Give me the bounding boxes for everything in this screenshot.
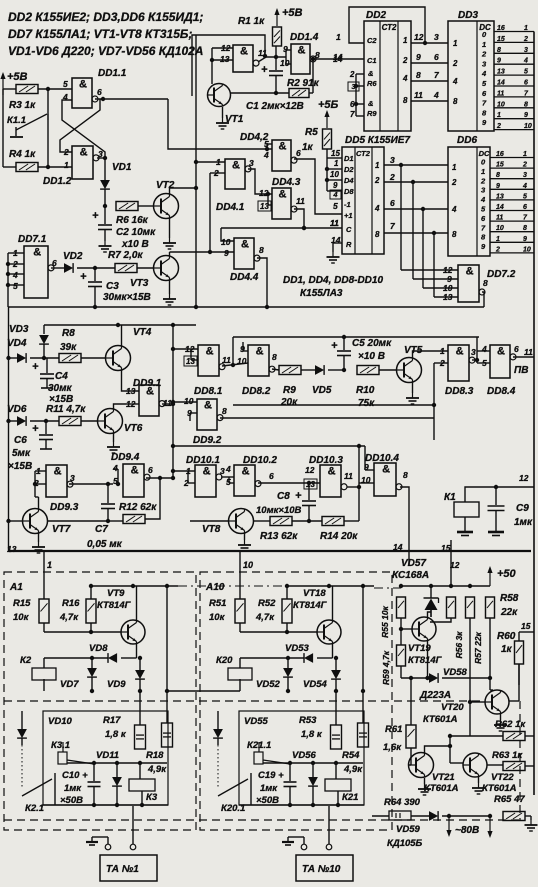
terminal: [130, 844, 136, 850]
svg-text:+5В: +5В: [7, 71, 28, 83]
bus mid vertical: [172, 325, 174, 477]
svg-text:VD6: VD6: [7, 404, 27, 415]
svg-text:2: 2: [451, 178, 457, 187]
wire: [328, 806, 330, 844]
svg-text:6: 6: [269, 471, 274, 481]
wire: [313, 58, 364, 60]
svg-text:11: 11: [524, 347, 533, 357]
svg-text:1к: 1к: [501, 644, 513, 655]
svg-text:VD10: VD10: [48, 716, 72, 727]
svg-text:+5Б: +5Б: [318, 99, 339, 111]
svg-text:А1: А1: [9, 582, 23, 593]
svg-text:VT9: VT9: [107, 588, 125, 599]
diode VD2: [64, 263, 73, 273]
ground: [238, 540, 251, 551]
wire: [410, 678, 412, 725]
svg-text:К20.1: К20.1: [221, 803, 245, 814]
wire emitter: [478, 777, 480, 783]
wire left bus: [8, 307, 10, 551]
wire: [379, 369, 397, 371]
ladder wire: [494, 96, 534, 98]
svg-text:3: 3: [482, 59, 487, 68]
section dashed line top: [4, 700, 484, 702]
svg-text:DD1.1: DD1.1: [98, 68, 127, 79]
gate DD9.3: [46, 465, 73, 497]
svg-text:5: 5: [63, 79, 68, 89]
wire: [138, 205, 154, 207]
svg-text:&: &: [256, 346, 264, 358]
svg-text:4: 4: [374, 204, 380, 213]
svg-text:~80В: ~80В: [455, 825, 479, 836]
wire: [309, 92, 313, 94]
svg-text:8: 8: [483, 278, 488, 288]
diode VD10 left: [21, 711, 23, 729]
IC DD5: [342, 147, 384, 254]
svg-text:1: 1: [64, 160, 69, 170]
svg-text:14: 14: [333, 54, 343, 64]
svg-text:9: 9: [333, 181, 338, 190]
svg-text:13: 13: [220, 54, 230, 64]
svg-text:R1 1к: R1 1к: [238, 16, 265, 27]
gate DD9.4: [123, 464, 150, 497]
svg-text:&: &: [54, 466, 62, 478]
svg-text:10: 10: [330, 170, 339, 179]
terminal: [105, 844, 111, 850]
wire: [411, 62, 448, 64]
wire collector: [487, 764, 503, 766]
svg-text:4: 4: [481, 344, 487, 354]
svg-text:1: 1: [334, 159, 339, 168]
resistor R53: [331, 725, 342, 749]
svg-text:D4: D4: [344, 176, 354, 185]
diode VD8: [108, 653, 117, 663]
svg-text:R4 1к: R4 1к: [9, 149, 36, 160]
ladder wire: [494, 85, 534, 87]
transistor VT5: [397, 358, 422, 383]
wire C-line: [221, 227, 342, 229]
svg-text:DD7.2: DD7.2: [487, 269, 516, 280]
pin 4 boxed: [330, 190, 341, 199]
svg-text:13: 13: [497, 69, 505, 76]
svg-text:9: 9: [524, 112, 528, 119]
ladder wire: [494, 63, 534, 65]
wire: [434, 362, 448, 364]
border bottom: [9, 550, 531, 552]
svg-text:12: 12: [519, 473, 529, 483]
svg-text:1,6к: 1,6к: [383, 742, 402, 753]
ladder wire: [490, 157, 534, 159]
ground: [32, 542, 45, 553]
power +50 arrow: [487, 566, 492, 586]
wire: [196, 161, 225, 163]
svg-text:75к: 75к: [358, 398, 375, 409]
svg-text:10: 10: [221, 237, 231, 247]
svg-text:×15В: ×15В: [8, 461, 32, 472]
svg-text:R59 4,7к: R59 4,7к: [381, 650, 391, 685]
wire: [95, 98, 168, 100]
svg-text:&: &: [497, 346, 505, 358]
wire DD4.1 out: [248, 169, 272, 194]
diode VD58: [429, 673, 438, 683]
diode VD6: [9, 420, 18, 422]
svg-text:VT21: VT21: [432, 772, 455, 783]
resistor R63: [503, 762, 525, 771]
wire: [513, 356, 534, 358]
svg-text:1: 1: [524, 25, 528, 32]
svg-text:VD58: VD58: [443, 667, 467, 678]
wire: [38, 88, 72, 90]
svg-text:8: 8: [523, 225, 527, 232]
svg-text:11: 11: [496, 215, 503, 222]
svg-text:10: 10: [497, 101, 505, 108]
relay К2 coil: [32, 668, 56, 680]
svg-text:0: 0: [481, 158, 486, 167]
wire: [410, 748, 412, 765]
svg-text:R51: R51: [209, 598, 226, 609]
svg-text:4: 4: [480, 195, 486, 204]
svg-text:VD1-VD6 Д220; VD7-VD56 КД102А: VD1-VD6 Д220; VD7-VD56 КД102А: [8, 44, 203, 58]
svg-text:10: 10: [280, 58, 290, 68]
svg-text:1: 1: [482, 40, 486, 49]
resistor R6: [116, 202, 138, 211]
wire: [38, 166, 72, 168]
wire DD9.3 out: [69, 483, 113, 485]
wire DD9.4 out: [146, 477, 173, 479]
diode VD7: [91, 658, 93, 668]
wire: [384, 164, 448, 166]
svg-text:13: 13: [306, 480, 315, 489]
svg-text:-1: -1: [344, 200, 351, 209]
svg-text:6: 6: [390, 198, 395, 208]
capacitor C7: [107, 484, 109, 503]
svg-text:DD8.1: DD8.1: [194, 386, 223, 397]
inner solid box: [43, 711, 168, 805]
wire: [268, 204, 272, 206]
ladder wire: [490, 167, 534, 169]
svg-text:К155ЛА3: К155ЛА3: [300, 288, 343, 299]
wire: [518, 632, 520, 641]
svg-text:5мк: 5мк: [12, 448, 31, 459]
svg-text:5: 5: [524, 69, 528, 76]
R5 input bus: [326, 158, 328, 191]
wire: [145, 478, 160, 519]
resistor R51: [235, 599, 245, 623]
ladder wire: [494, 52, 534, 54]
svg-text:1: 1: [452, 163, 457, 172]
gate DD1.1: [72, 78, 98, 108]
wire R62 row: [450, 735, 503, 737]
svg-text:DD6: DD6: [457, 135, 477, 146]
svg-text:6: 6: [148, 465, 153, 475]
svg-text:R53: R53: [299, 715, 317, 726]
svg-text:+1: +1: [344, 211, 353, 220]
svg-text:2: 2: [496, 123, 501, 130]
svg-text:VD54: VD54: [303, 679, 327, 690]
resistor R55: [397, 597, 406, 618]
wire bottom: [43, 679, 45, 691]
svg-text:7: 7: [482, 99, 487, 108]
svg-text:R14 20к: R14 20к: [320, 531, 358, 542]
wire: [464, 517, 466, 531]
svg-text:4: 4: [522, 183, 527, 190]
svg-text:9: 9: [496, 183, 500, 190]
svg-text:&: &: [241, 239, 249, 251]
svg-text:7: 7: [390, 221, 396, 231]
wire: [191, 359, 198, 361]
svg-text:4,9к: 4,9к: [343, 764, 363, 775]
wire: [166, 586, 168, 723]
resistor R57: [466, 597, 475, 618]
ground: [327, 252, 340, 263]
svg-text:13: 13: [443, 292, 453, 302]
svg-text:VD53: VD53: [285, 643, 309, 654]
svg-text:&: &: [33, 247, 41, 259]
relay K1: [454, 502, 479, 517]
svg-text:8: 8: [222, 406, 227, 416]
wire y446: [173, 445, 365, 447]
wire: [422, 209, 424, 288]
resistor R60: [515, 641, 524, 664]
svg-text:&: &: [382, 464, 390, 476]
svg-text:C5 20мк: C5 20мк: [352, 338, 392, 349]
svg-text:0,05 мк: 0,05 мк: [87, 539, 123, 550]
svg-text:VT6: VT6: [124, 423, 143, 434]
wire VT8 emitter: [244, 533, 246, 540]
wire left bus: [7, 253, 9, 307]
transistor VT21: [409, 753, 434, 778]
svg-text:DD8.3: DD8.3: [445, 386, 474, 397]
wire bottom inner: [239, 804, 364, 806]
wire: [2, 89, 4, 167]
inner solid box: [239, 711, 364, 805]
ladder wire: [494, 107, 534, 109]
svg-text:R57 22к: R57 22к: [473, 631, 483, 663]
wire: [384, 208, 448, 210]
gate DD8.4: [490, 345, 516, 378]
wire DD8.2 out: [272, 369, 279, 370]
svg-text:C3: C3: [106, 281, 119, 292]
ladder wire: [490, 210, 534, 212]
svg-text:7: 7: [350, 110, 355, 119]
svg-text:4: 4: [225, 464, 231, 474]
svg-text:1: 1: [375, 161, 380, 170]
svg-text:VT3: VT3: [130, 278, 149, 289]
wire: [433, 418, 435, 440]
svg-text:2: 2: [374, 176, 380, 185]
svg-text:DD2 К155ИЕ2; DD3,DD6 К155ИД1;: DD2 К155ИЕ2; DD3,DD6 К155ИД1;: [8, 10, 203, 24]
wire: [108, 520, 123, 522]
svg-text:9: 9: [482, 118, 487, 127]
ground: [406, 393, 419, 404]
svg-text:ПВ: ПВ: [514, 365, 528, 376]
svg-text:D1: D1: [344, 154, 354, 163]
svg-text:3: 3: [70, 473, 75, 483]
ladder wire: [494, 41, 534, 43]
svg-text:R8: R8: [62, 328, 75, 339]
svg-text:3: 3: [523, 172, 527, 179]
terminal: [326, 844, 332, 850]
ladder wire: [490, 199, 534, 201]
svg-text:4,9к: 4,9к: [147, 764, 167, 775]
svg-text:&: &: [278, 141, 286, 153]
wire: [132, 806, 134, 844]
svg-text:20к: 20к: [280, 397, 298, 408]
svg-text:6: 6: [524, 80, 528, 87]
svg-text:DD9.4: DD9.4: [111, 452, 140, 463]
wire base R60: [518, 664, 520, 685]
wire DD9.1 out: [162, 403, 173, 405]
svg-text:8: 8: [259, 245, 264, 255]
svg-text:DD9.3: DD9.3: [50, 502, 79, 513]
wire collector: [136, 586, 138, 621]
svg-text:C8: C8: [277, 491, 290, 502]
wire: [411, 815, 429, 817]
svg-text:4: 4: [452, 77, 458, 86]
svg-text:DD5 К155ИЕ7: DD5 К155ИЕ7: [345, 135, 410, 146]
svg-text:9: 9: [481, 242, 486, 251]
svg-text:R12 62к: R12 62к: [119, 502, 157, 513]
svg-text:R: R: [346, 240, 352, 249]
arrow down: [487, 816, 492, 838]
svg-text:1: 1: [497, 112, 501, 119]
box ТА №10: [296, 855, 353, 881]
border right bus: [533, 32, 535, 796]
transistor VT18: [317, 620, 341, 644]
svg-text:&: &: [456, 346, 464, 358]
svg-text:D8: D8: [344, 187, 354, 196]
svg-text:5: 5: [482, 79, 487, 88]
transistor VT9: [121, 620, 145, 644]
resistor R1: [273, 27, 282, 46]
svg-text:6: 6: [482, 89, 487, 98]
svg-text:11: 11: [296, 196, 305, 206]
pin 13 boxed: [258, 201, 271, 211]
svg-text:2: 2: [523, 36, 528, 43]
svg-text:16: 16: [496, 151, 504, 158]
svg-text:R15: R15: [13, 598, 31, 609]
wire DD4.3 out: [294, 209, 304, 228]
resistor R65: [503, 812, 525, 821]
svg-text:3: 3: [471, 347, 476, 357]
wire: [372, 815, 389, 817]
svg-text:13: 13: [496, 193, 504, 200]
svg-text:8: 8: [416, 70, 421, 80]
svg-text:DD9.2: DD9.2: [193, 435, 222, 446]
svg-text:4: 4: [481, 69, 487, 78]
wire: [359, 482, 374, 484]
svg-text:14: 14: [497, 80, 505, 87]
wire: [173, 470, 195, 472]
svg-text:10: 10: [524, 123, 532, 130]
gate DD4.4: [234, 238, 260, 269]
svg-text:13: 13: [126, 386, 136, 396]
svg-text:&: &: [466, 266, 474, 278]
wire DD8.3 out: [472, 359, 477, 361]
svg-text:6: 6: [514, 344, 519, 354]
svg-text:3: 3: [390, 155, 395, 165]
svg-text:8: 8: [524, 101, 528, 108]
svg-text:R13 62к: R13 62к: [260, 531, 298, 542]
wire bottom: [239, 679, 241, 691]
svg-text:6: 6: [481, 214, 486, 223]
wire: [126, 403, 139, 405]
svg-text:1: 1: [523, 151, 527, 158]
block А10 dashed box: [200, 572, 392, 830]
svg-text:DD4.3: DD4.3: [272, 177, 301, 188]
svg-text:DD8.2: DD8.2: [242, 386, 271, 397]
capacitor C9: [495, 487, 497, 505]
resistor R12: [123, 515, 145, 524]
wire DD7.2 out: [482, 292, 484, 307]
resistor R56: [447, 597, 456, 618]
svg-text:1: 1: [481, 167, 485, 176]
wire: [433, 233, 435, 297]
svg-text:3: 3: [481, 186, 486, 195]
svg-text:16: 16: [497, 25, 505, 32]
wire: [469, 618, 471, 736]
gate DD10.1: [195, 465, 222, 497]
wire DD10.2 out: [258, 482, 320, 484]
gate DD7.1: [24, 246, 54, 298]
svg-text:4: 4: [451, 205, 457, 214]
svg-text:15: 15: [331, 149, 340, 158]
svg-text:&: &: [146, 386, 154, 398]
wire: [292, 520, 322, 522]
svg-text:R10: R10: [356, 385, 375, 396]
relay К3 coil: [129, 779, 155, 791]
svg-text:4: 4: [112, 463, 118, 473]
svg-text:5: 5: [523, 193, 527, 200]
svg-text:D2: D2: [344, 165, 354, 174]
wire input: [239, 551, 241, 599]
svg-text:КТ814Г: КТ814Г: [293, 600, 328, 611]
svg-text:R18: R18: [146, 750, 164, 761]
rail link dashed 2: [374, 587, 401, 589]
svg-text:R63 1к: R63 1к: [492, 750, 523, 761]
svg-text:&: &: [206, 346, 214, 358]
wire DD8.1 out: [222, 363, 248, 366]
wire: [450, 540, 452, 586]
wire: [210, 172, 225, 174]
wire: [412, 182, 414, 279]
svg-text:5: 5: [226, 477, 231, 487]
svg-text:VD7: VD7: [60, 679, 79, 690]
gate DD7.2: [458, 265, 485, 302]
wire: [51, 267, 64, 269]
wire DD1.1 to DD4.2: [168, 99, 272, 149]
diode VD1: [100, 180, 110, 189]
wire: [411, 42, 448, 44]
wire: [476, 337, 478, 363]
svg-text:DD1, DD4, DD8-DD10: DD1, DD4, DD8-DD10: [283, 275, 383, 286]
wire: [231, 92, 290, 94]
svg-text:4,7к: 4,7к: [59, 612, 79, 623]
svg-text:30мк×15В: 30мк×15В: [103, 292, 151, 303]
ground: [163, 294, 176, 305]
wire rail: [91, 585, 178, 587]
svg-text:6: 6: [434, 52, 439, 62]
svg-text:8: 8: [403, 470, 408, 480]
wire emitter: [500, 714, 502, 720]
wire bottom inner: [43, 804, 168, 806]
wire cross b: [60, 99, 100, 152]
svg-text:R2 91к: R2 91к: [287, 78, 320, 89]
wire: [449, 746, 451, 763]
svg-text:5: 5: [481, 205, 486, 214]
wire riser x359: [358, 446, 360, 521]
svg-text:4: 4: [433, 90, 439, 100]
svg-text:12: 12: [450, 560, 460, 570]
